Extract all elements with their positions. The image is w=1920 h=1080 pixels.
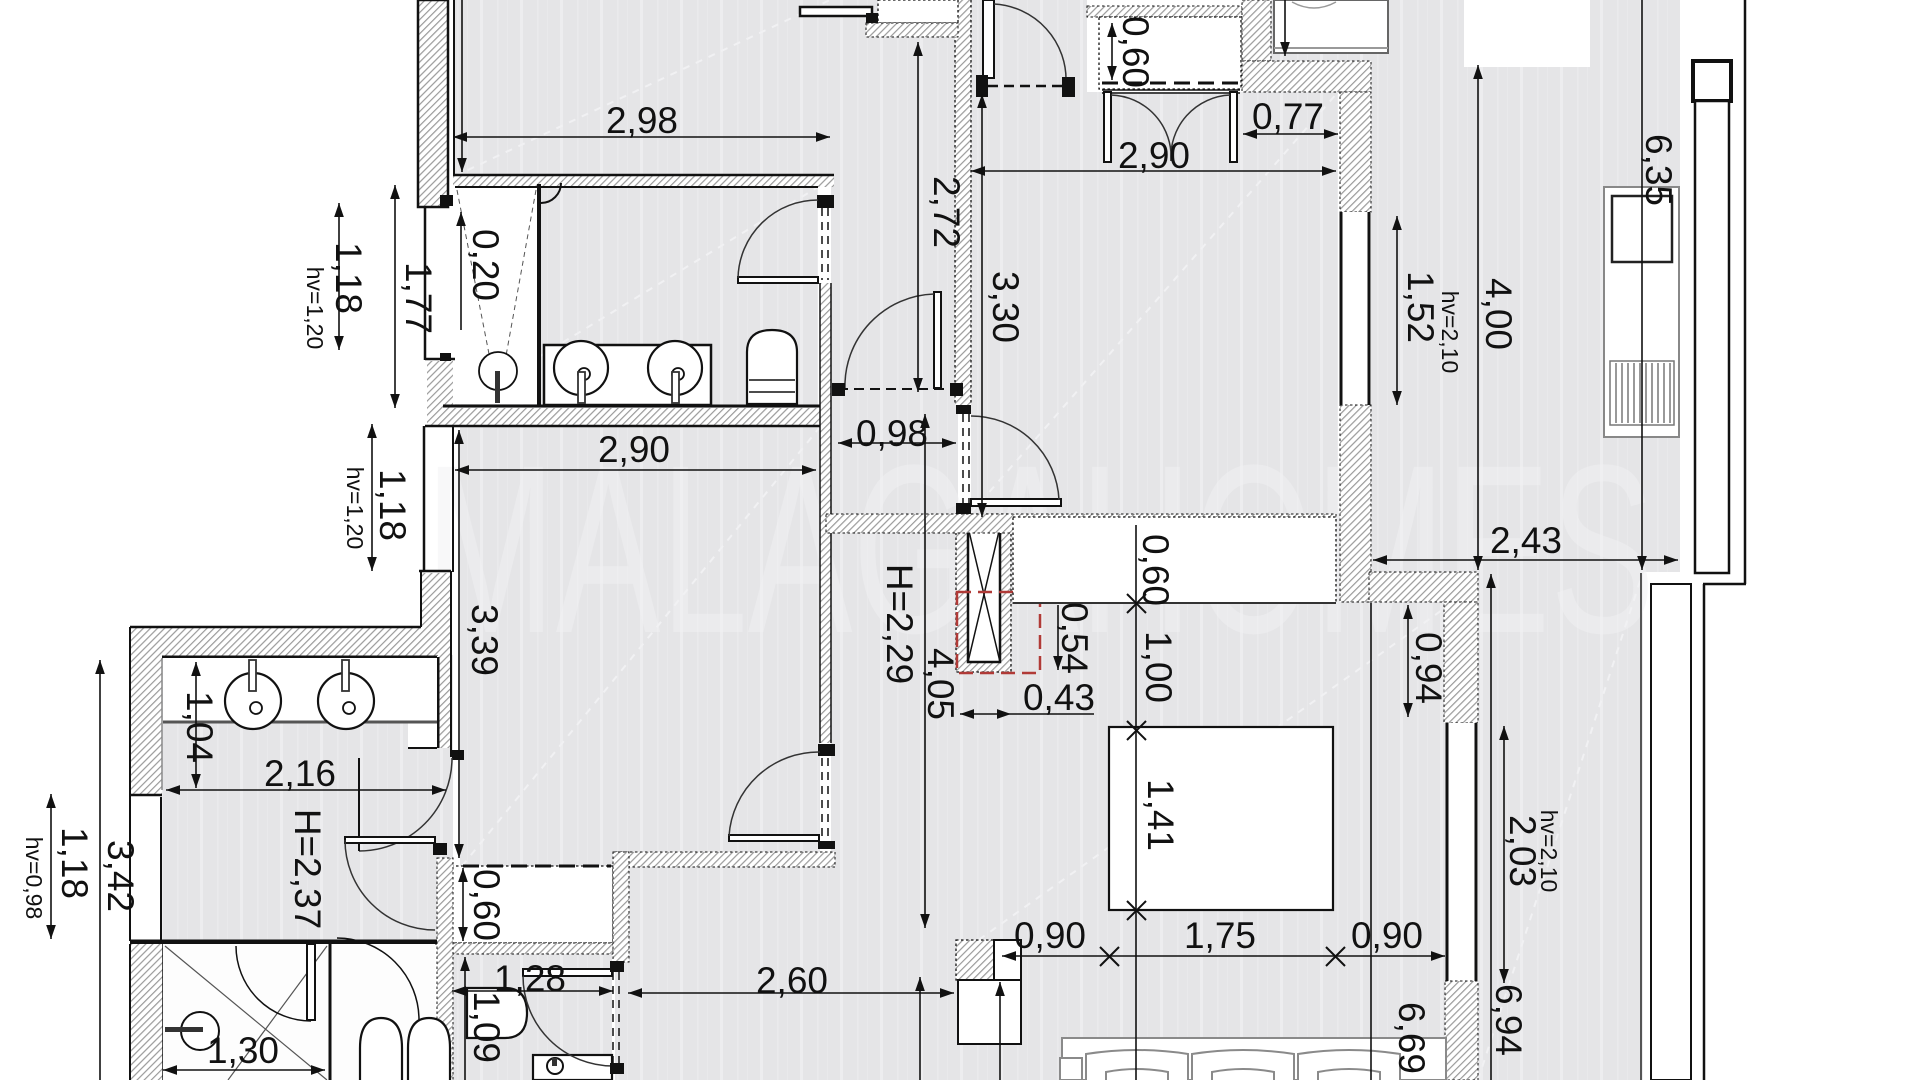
dim 1,77 <box>394 185 396 408</box>
living kitchen strip floor <box>1371 0 1680 572</box>
dim 1,28 <box>452 990 613 992</box>
wall top room bottom band <box>453 0 834 187</box>
door bathroom2 <box>359 750 464 851</box>
toilet ensuite <box>747 330 797 404</box>
window top-right (1,52) <box>1340 212 1371 405</box>
red dashed rect <box>957 592 1040 673</box>
svg-text:1,52: 1,52 <box>1400 271 1441 343</box>
wall center vertical (corridor left) <box>817 195 835 849</box>
svg-text:hv=1,20: hv=1,20 <box>342 467 368 550</box>
svg-text:1,77: 1,77 <box>398 262 439 334</box>
svg-text:0,90: 0,90 <box>1014 915 1086 956</box>
svg-text:1,04: 1,04 <box>179 691 220 763</box>
dim 1,09 <box>464 957 466 1080</box>
dim 2,03 <box>1503 726 1505 983</box>
svg-text:6,69: 6,69 <box>1391 1002 1432 1074</box>
dim 2,16 <box>166 789 446 791</box>
shower ensuite <box>455 183 561 405</box>
svg-text:1,18: 1,18 <box>54 827 95 899</box>
svg-text:1,09: 1,09 <box>466 991 507 1063</box>
svg-text:hv=0,98: hv=0,98 <box>21 837 47 920</box>
svg-text:2,90: 2,90 <box>598 429 670 470</box>
dim 2,60 <box>628 992 954 994</box>
bathroom bottom-center floor <box>448 952 612 1080</box>
vanity bathroom2 <box>162 658 437 790</box>
wall bottom-left bold <box>130 942 437 1080</box>
wall bathroom2 left band <box>130 627 162 797</box>
svg-text:1,41: 1,41 <box>1140 779 1181 851</box>
faint guide diagonals <box>455 0 1643 1080</box>
window wall left (double line) <box>130 797 161 941</box>
svg-text:0,77: 0,77 <box>1252 96 1324 137</box>
dim 3,42 <box>99 660 101 1080</box>
dim 2,90 top <box>971 170 1336 172</box>
vanity ensuite <box>544 341 711 405</box>
window right (bedroom3) <box>1446 723 1478 981</box>
door dressing (H=2,37) <box>345 837 447 930</box>
dim 0,98 <box>838 442 956 444</box>
wall right of bedroom3 above window <box>1444 602 1478 723</box>
dim 0,20 <box>460 212 462 330</box>
door hall right (0,98) <box>832 292 963 396</box>
hatch band hall horizontal <box>615 852 835 867</box>
column with X <box>956 514 1011 672</box>
dim 0,60 wardrobe <box>462 868 464 941</box>
entry top hatch band <box>866 23 958 37</box>
svg-text:H=2,29: H=2,29 <box>879 564 920 684</box>
door bedroom3 entry <box>729 752 828 841</box>
svg-text:H=2,37: H=2,37 <box>287 809 328 929</box>
dim 0,54 <box>1057 605 1059 670</box>
svg-text:2,43: 2,43 <box>1490 520 1562 561</box>
svg-text:3,30: 3,30 <box>985 271 1026 343</box>
svg-text:2,60: 2,60 <box>756 960 828 1001</box>
svg-text:0,60: 0,60 <box>1115 16 1156 88</box>
dim 6,94 <box>1490 574 1492 1080</box>
white rect terrace top <box>1464 0 1590 67</box>
wall bathroom2 top band <box>130 627 450 748</box>
dim 1,18 upper <box>338 203 340 350</box>
dim 0,77 <box>1243 133 1338 135</box>
svg-text:hv=1,20: hv=1,20 <box>302 267 328 350</box>
wall corridor right dotted band <box>955 0 971 514</box>
dim 3,30 <box>981 94 983 517</box>
svg-text:3,39: 3,39 <box>464 604 505 676</box>
sofa <box>1060 1038 1446 1080</box>
wall top-center closet surround <box>1087 6 1242 93</box>
middle-left bedroom floor <box>460 427 820 867</box>
wall right below window <box>1445 981 1478 1080</box>
closet double doors top-center <box>1104 92 1237 162</box>
hatch band under wardrobe <box>448 943 613 954</box>
bathroom3 fixtures <box>467 988 612 1080</box>
dim 2,98 <box>453 136 830 138</box>
nightstand hatch column <box>956 940 1021 1044</box>
gray floor regions <box>162 0 1680 1080</box>
bed top-right <box>1274 0 1388 53</box>
svg-text:6,94: 6,94 <box>1488 984 1529 1056</box>
svg-text:0,90: 0,90 <box>1351 915 1423 956</box>
top-center bedroom floor <box>971 92 1338 513</box>
dim 2,72 <box>917 42 919 392</box>
dim 0,60 closet top <box>1111 23 1113 80</box>
dim 4,05 <box>924 414 926 928</box>
railing rects right <box>1651 61 1731 1080</box>
door bathroom3 <box>523 961 624 1074</box>
svg-text:1,18: 1,18 <box>372 469 413 541</box>
corridor mid floor <box>831 533 956 852</box>
wardrobe hall white <box>451 866 613 943</box>
dim 1,18 lower <box>371 424 373 571</box>
dim nightstand <box>999 982 1001 1080</box>
door top-center room (left) <box>963 414 1061 506</box>
dressing area floor <box>162 655 453 940</box>
svg-text:0,94: 0,94 <box>1408 632 1449 704</box>
wall below window <box>1340 405 1371 602</box>
svg-text:6,35: 6,35 <box>1638 134 1679 206</box>
bathroom ensuite floor <box>455 187 818 408</box>
closet bedroom3 white <box>1013 517 1336 603</box>
wall bedroom3 top-right horizontal band <box>1369 572 1478 602</box>
dim 3,39 <box>458 430 460 858</box>
dim 6,69 <box>1370 603 1372 1080</box>
svg-text:2,98: 2,98 <box>606 100 678 141</box>
door bathroom1 (ensuite) <box>738 200 828 283</box>
dim chain bedroom3 vertical <box>1135 525 1137 1080</box>
boundary lines right <box>1744 0 1747 584</box>
strip right of top bed <box>1242 0 1388 61</box>
terrace strip floor lower <box>1478 572 1643 1080</box>
dim 6,35 <box>1641 0 1643 570</box>
dim 1,18 hv098 <box>50 794 52 939</box>
wall left of bathroom3 dotted <box>437 858 453 1080</box>
dim 0,43 <box>960 713 1011 715</box>
room top-left floor <box>453 0 833 176</box>
dim 1,04 <box>195 662 197 788</box>
svg-text:0,98: 0,98 <box>856 413 928 454</box>
dim below 4,05 <box>919 977 921 1080</box>
wall bathroom1 left line <box>425 195 453 363</box>
hall center floor <box>615 852 956 1080</box>
wall top-left vertical <box>418 0 448 207</box>
svg-text:0,60: 0,60 <box>1135 534 1176 606</box>
kitchen counter <box>1604 187 1679 437</box>
svg-text:3,42: 3,42 <box>100 840 141 912</box>
bed bedroom3 <box>1109 727 1333 910</box>
dim 1,52 <box>1396 216 1398 405</box>
entry top: door leaf bar <box>800 7 872 16</box>
svg-text:1,75: 1,75 <box>1184 915 1256 956</box>
hatch band hall vertical <box>613 852 629 962</box>
wall bedroom1 bottom L hatch <box>1242 0 1371 212</box>
bedroom bottom-right floor <box>956 513 1452 1080</box>
wall bathroom1 bottom band <box>425 359 820 426</box>
wall left of middle bedroom <box>419 426 453 757</box>
bathroom4 bottom-left fixtures <box>163 938 450 1080</box>
svg-text:0,60: 0,60 <box>466 869 507 941</box>
dim 4,00 <box>1477 65 1479 570</box>
svg-text:4,00: 4,00 <box>1478 278 1519 350</box>
X ticks <box>1100 594 1345 966</box>
dim 0,94 <box>1407 605 1409 717</box>
dim 1,30 <box>163 1069 325 1071</box>
svg-text:0,54: 0,54 <box>1054 602 1095 674</box>
corridor top floor <box>831 0 958 514</box>
svg-text:0,43: 0,43 <box>1023 677 1095 718</box>
wall band mid horizontal (hall/bedroom3) <box>826 514 1336 533</box>
svg-text:1,30: 1,30 <box>207 1030 279 1071</box>
dim bed1 <box>1284 0 1286 56</box>
dim 2,90 left <box>455 469 816 471</box>
svg-text:1,00: 1,00 <box>1138 631 1179 703</box>
svg-text:2,16: 2,16 <box>264 753 336 794</box>
svg-text:2,90: 2,90 <box>1118 135 1190 176</box>
dim 2,43 <box>1373 559 1678 561</box>
dim bed horizontal chain <box>1002 955 1445 957</box>
dim line top-left down arrow <box>461 0 463 172</box>
svg-text:2,72: 2,72 <box>926 176 967 248</box>
svg-text:hv=2,10: hv=2,10 <box>1536 810 1562 893</box>
svg-text:hv=2,10: hv=2,10 <box>1437 291 1463 374</box>
svg-text:4,05: 4,05 <box>920 648 961 720</box>
svg-text:1,18: 1,18 <box>328 242 369 314</box>
entry top: dotted white rect <box>878 0 958 23</box>
door top-center room (top) <box>976 0 1075 97</box>
svg-text:0,20: 0,20 <box>465 229 506 301</box>
